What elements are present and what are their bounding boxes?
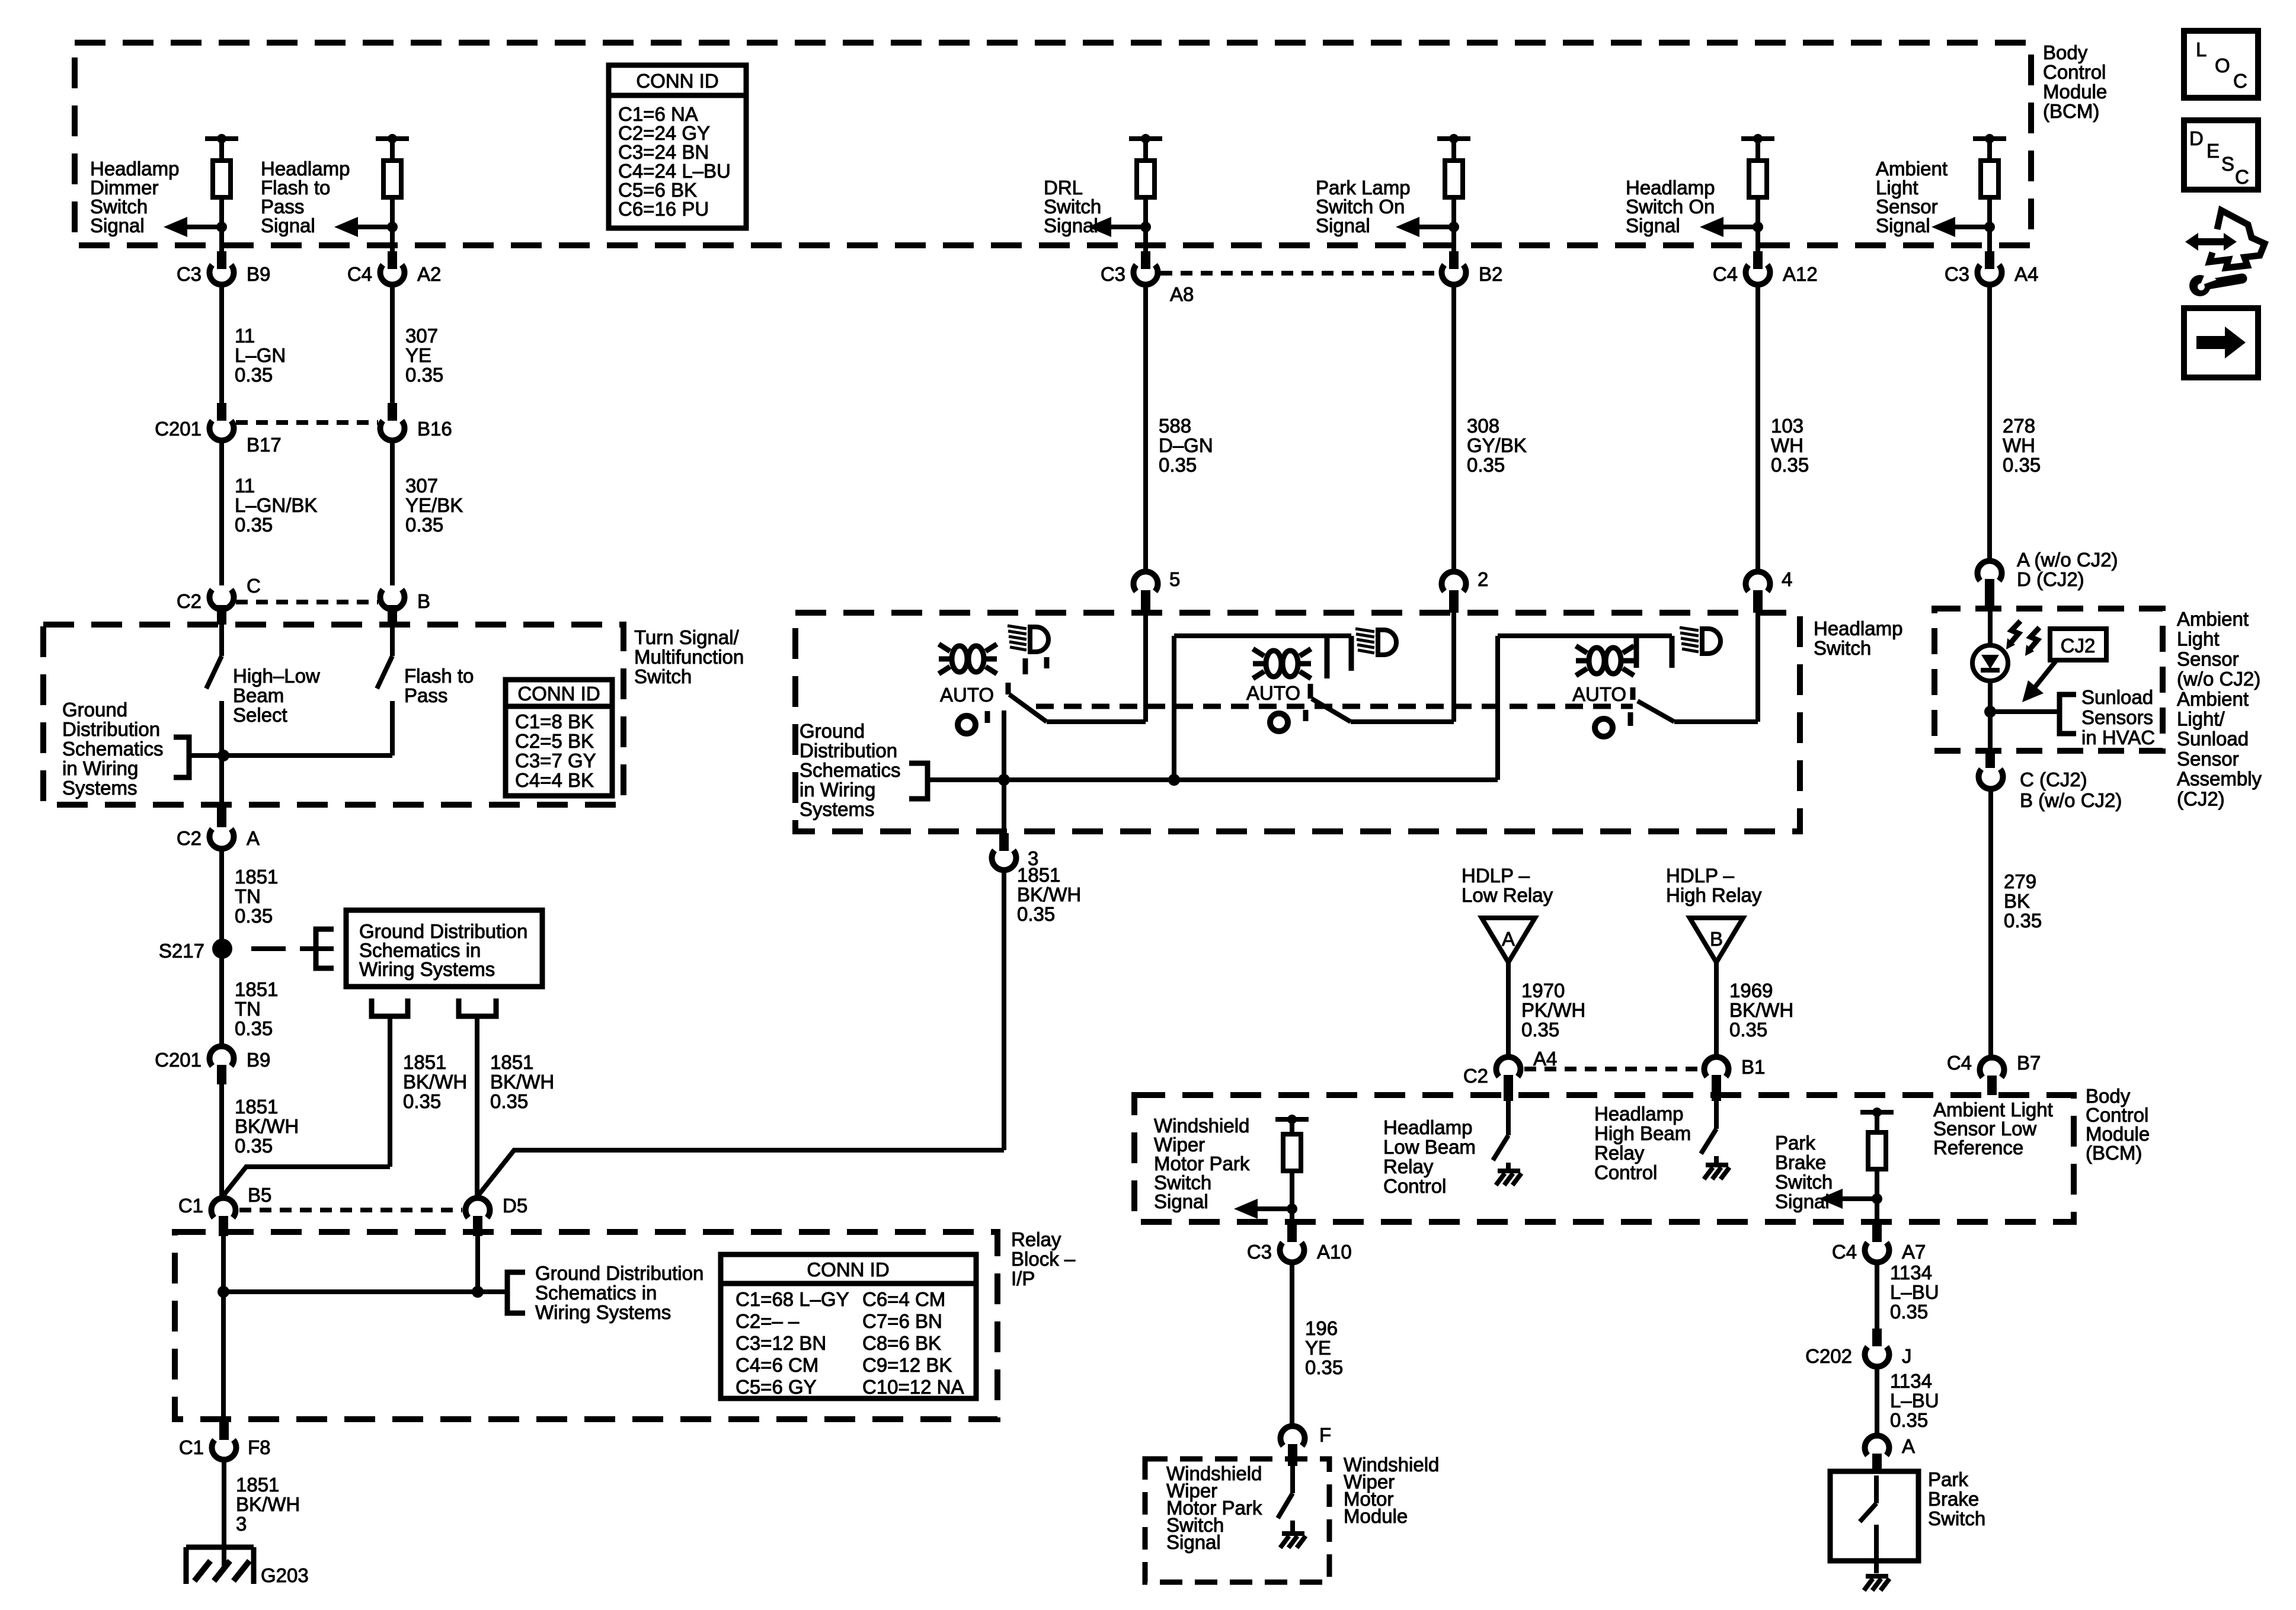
ground (high relay control) bbox=[1714, 1156, 1719, 1165]
svg-text:B5: B5 bbox=[248, 1184, 271, 1206]
svg-text:WH: WH bbox=[1771, 434, 1803, 456]
svg-text:Sensors: Sensors bbox=[2081, 706, 2153, 728]
connector legs of ground distribution box bbox=[372, 998, 408, 1016]
resistor (BCM internal) at x=2966 bbox=[1755, 139, 1760, 161]
wire 11 L-GN/BK 0.35 bbox=[219, 440, 224, 585]
resistor (BCM internal) at x=2453 bbox=[1451, 139, 1456, 161]
svg-text:Relay: Relay bbox=[1011, 1228, 1061, 1250]
svg-text:Switch: Switch bbox=[1775, 1171, 1833, 1193]
connector C2 pin A bbox=[217, 807, 226, 827]
svg-text:0.35: 0.35 bbox=[1890, 1409, 1928, 1431]
resistor (BCM internal) at x=374 bbox=[219, 139, 224, 161]
svg-text:TN: TN bbox=[235, 885, 261, 907]
svg-text:Light/: Light/ bbox=[2177, 708, 2225, 730]
svg-text:B2: B2 bbox=[1479, 263, 1502, 285]
connector C2 pin C bbox=[209, 590, 234, 609]
svg-text:AUTO: AUTO bbox=[1246, 682, 1300, 704]
svg-text:2: 2 bbox=[1478, 568, 1488, 590]
svg-text:BK/WH: BK/WH bbox=[236, 1493, 300, 1515]
svg-text:YE: YE bbox=[405, 344, 431, 366]
connector wiper module pin F bbox=[1281, 1426, 1305, 1446]
bracket: ground distribution reference (MFS) bbox=[174, 737, 189, 777]
svg-text:Ground Distribution: Ground Distribution bbox=[535, 1262, 703, 1284]
svg-text:C4: C4 bbox=[1713, 263, 1738, 285]
svg-text:L–BU: L–BU bbox=[1890, 1281, 1939, 1303]
wire 1134 L-BU 0.35 (lower) bbox=[1875, 1366, 1879, 1434]
svg-text:A4: A4 bbox=[1533, 1048, 1557, 1070]
wire 1851 TN 0.35 (lower) bbox=[219, 956, 224, 1045]
svg-text:Select: Select bbox=[233, 704, 287, 726]
svg-text:BK/WH: BK/WH bbox=[235, 1115, 299, 1137]
svg-text:Signal: Signal bbox=[1876, 215, 1930, 236]
svg-text:308: 308 bbox=[1467, 415, 1499, 437]
svg-text:Headlamp: Headlamp bbox=[1814, 617, 1902, 639]
svg-text:C202: C202 bbox=[1805, 1345, 1852, 1367]
svg-text:C3: C3 bbox=[1247, 1241, 1272, 1263]
icon: harness arrows and wrench bbox=[2185, 210, 2265, 296]
connector park brake switch pin A bbox=[1865, 1436, 1889, 1455]
wire: BCM internal supply rail tick for circuit at x=2453 bbox=[1437, 136, 1470, 141]
junction bbox=[998, 774, 1010, 786]
svg-text:C3: C3 bbox=[177, 263, 202, 285]
jumper: C2 harness dashed link bbox=[236, 600, 378, 604]
svg-text:A2: A2 bbox=[417, 263, 441, 285]
jumper: S217 reference dashes bbox=[251, 946, 334, 951]
connector C201 pin B16 bbox=[388, 403, 397, 421]
svg-text:1970: 1970 bbox=[1521, 980, 1565, 1001]
svg-text:F: F bbox=[1319, 1424, 1331, 1446]
svg-text:Sensor: Sensor bbox=[2177, 648, 2239, 670]
svg-text:C6=16 PU: C6=16 PU bbox=[618, 198, 709, 220]
svg-text:C2: C2 bbox=[177, 590, 202, 612]
svg-text:WH: WH bbox=[2003, 434, 2035, 456]
svg-text:Ambient: Ambient bbox=[2177, 688, 2249, 710]
svg-text:C3: C3 bbox=[1101, 263, 1125, 285]
wire 1851 BK/WH 3 bbox=[222, 1459, 226, 1569]
svg-text:Switch: Switch bbox=[1814, 637, 1871, 659]
svg-text:C1=8 BK: C1=8 BK bbox=[515, 710, 594, 732]
resistor (BCM internal) at x=1933 bbox=[1143, 139, 1148, 161]
signal arrow for circuit at x=1933 bbox=[1140, 222, 1151, 232]
svg-text:Signal: Signal bbox=[1775, 1190, 1830, 1212]
switch: Park Lamp (AUTO) bbox=[1174, 629, 1454, 780]
bracket: ground distribution reference (relay block) bbox=[507, 1272, 525, 1313]
svg-text:YE: YE bbox=[1305, 1337, 1331, 1359]
svg-text:(w/o CJ2): (w/o CJ2) bbox=[2177, 668, 2260, 690]
svg-text:C7=6 BN: C7=6 BN bbox=[862, 1310, 942, 1332]
light arrows bbox=[2009, 621, 2020, 645]
bracket: ground distribution reference (S217) bbox=[316, 929, 334, 968]
svg-text:0.35: 0.35 bbox=[235, 1017, 273, 1039]
resistor (BCM internal) at x=662 bbox=[390, 139, 395, 161]
connector C1 pin F8 bbox=[219, 1422, 229, 1440]
svg-text:1851: 1851 bbox=[235, 866, 278, 888]
svg-text:PK/WH: PK/WH bbox=[1521, 999, 1585, 1021]
svg-text:0.35: 0.35 bbox=[405, 364, 443, 386]
wire: BCM internal supply rail tick for circuit at x=374 bbox=[205, 136, 238, 141]
signal arrow for circuit at x=2453 bbox=[1448, 222, 1459, 232]
junction bbox=[1168, 774, 1180, 786]
svg-text:TN: TN bbox=[235, 998, 261, 1020]
svg-text:C1: C1 bbox=[179, 1436, 204, 1458]
connector C3 pin B9 bbox=[217, 251, 226, 269]
module box: Windshield Wiper Motor Module bbox=[1145, 1459, 1329, 1582]
svg-text:Light: Light bbox=[2177, 628, 2220, 650]
svg-text:L–GN/BK: L–GN/BK bbox=[235, 494, 317, 516]
wire: MFS ground link bbox=[189, 753, 392, 758]
svg-text:C8=6 BK: C8=6 BK bbox=[862, 1332, 941, 1354]
svg-text:C9=12 BK: C9=12 BK bbox=[862, 1354, 952, 1376]
switch: Headlamp On (AUTO) bbox=[1498, 628, 1758, 780]
svg-text:A: A bbox=[1902, 1435, 1915, 1457]
svg-text:C2: C2 bbox=[1463, 1065, 1488, 1087]
svg-text:Signal: Signal bbox=[1044, 215, 1098, 236]
svg-text:3: 3 bbox=[236, 1513, 247, 1535]
svg-text:307: 307 bbox=[405, 475, 438, 497]
svg-text:Brake: Brake bbox=[1775, 1151, 1826, 1173]
svg-text:Sensor: Sensor bbox=[2177, 748, 2239, 770]
svg-text:0.35: 0.35 bbox=[1467, 454, 1505, 476]
svg-text:Signal: Signal bbox=[90, 215, 145, 236]
svg-text:0.35: 0.35 bbox=[235, 905, 273, 927]
svg-text:in Wiring: in Wiring bbox=[800, 779, 875, 801]
svg-text:1851: 1851 bbox=[490, 1051, 533, 1073]
svg-text:4: 4 bbox=[1782, 568, 1792, 590]
svg-text:Headlamp: Headlamp bbox=[1383, 1116, 1472, 1138]
svg-text:Pass: Pass bbox=[404, 684, 447, 706]
switch: DRL (AUTO) bbox=[939, 626, 1146, 734]
svg-text:L–BU: L–BU bbox=[1890, 1390, 1939, 1411]
svg-text:0.35: 0.35 bbox=[405, 514, 443, 536]
signal arrow for circuit at x=3357 bbox=[1984, 222, 1995, 232]
svg-text:(BCM): (BCM) bbox=[2086, 1142, 2142, 1164]
svg-text:Ambient: Ambient bbox=[2177, 608, 2249, 630]
junction bbox=[1984, 706, 1996, 718]
svg-text:HDLP –: HDLP – bbox=[1666, 865, 1735, 886]
svg-text:CONN ID: CONN ID bbox=[807, 1259, 889, 1281]
wire: ambient light sensor signal (upper) bbox=[1987, 557, 1992, 562]
svg-text:Wiring Systems: Wiring Systems bbox=[359, 958, 495, 980]
junction bbox=[472, 1286, 484, 1298]
svg-text:1851: 1851 bbox=[235, 1096, 278, 1118]
svg-text:0.35: 0.35 bbox=[235, 364, 273, 386]
svg-text:Switch: Switch bbox=[1928, 1507, 1985, 1529]
ground (wiper module) bbox=[1290, 1521, 1295, 1534]
svg-text:C: C bbox=[2235, 166, 2249, 188]
connector C4 pin A7 bbox=[1872, 1224, 1882, 1242]
svg-text:0.35: 0.35 bbox=[1305, 1356, 1343, 1378]
ground (park brake switch) bbox=[1866, 1574, 1888, 1579]
svg-text:Signal: Signal bbox=[261, 215, 315, 236]
svg-text:Flash to: Flash to bbox=[404, 665, 474, 687]
svg-text:0.35: 0.35 bbox=[1159, 454, 1197, 476]
svg-text:307: 307 bbox=[405, 325, 438, 347]
module box: Body Control Module (BCM) top bbox=[75, 43, 2031, 245]
svg-text:B: B bbox=[1710, 928, 1723, 950]
svg-text:Switch: Switch bbox=[634, 665, 692, 687]
svg-text:S: S bbox=[2221, 153, 2234, 175]
signal arrow for circuit at x=374 bbox=[216, 222, 227, 232]
wire 196 YE 0.35 bbox=[1290, 1262, 1294, 1425]
resistor (BCM internal) at x=3357 bbox=[1987, 139, 1992, 161]
ground (low relay control) bbox=[1506, 1163, 1511, 1171]
callout: CJ2 bbox=[2022, 629, 2106, 702]
wire 1851 BK/WH 0.35 (right leg) bbox=[475, 1016, 479, 1196]
wire 308 GY/BK 0.35 bbox=[1451, 284, 1456, 570]
connector C4 pin B7 bbox=[1980, 1058, 2004, 1077]
svg-text:Park: Park bbox=[1928, 1468, 1968, 1490]
svg-text:1134: 1134 bbox=[1890, 1370, 1932, 1392]
wire 1970 PK/WH 0.35 bbox=[1506, 962, 1511, 1055]
svg-text:Control: Control bbox=[1594, 1161, 1657, 1183]
svg-text:Ground: Ground bbox=[800, 720, 865, 742]
svg-text:E: E bbox=[2207, 140, 2220, 162]
svg-text:Signal: Signal bbox=[1154, 1190, 1208, 1212]
splice S217 bbox=[212, 939, 232, 959]
svg-text:C1: C1 bbox=[178, 1195, 203, 1217]
svg-text:A4: A4 bbox=[2014, 263, 2038, 285]
wire 1969 BK/WH 0.35 bbox=[1714, 962, 1719, 1055]
module box: Relay Block - I/P bbox=[175, 1232, 997, 1419]
ground G203 bbox=[186, 1547, 254, 1584]
svg-text:in HVAC: in HVAC bbox=[2081, 726, 2155, 748]
svg-text:Schematics: Schematics bbox=[800, 759, 901, 781]
svg-text:C4: C4 bbox=[1947, 1052, 1972, 1074]
svg-text:Module: Module bbox=[2043, 81, 2107, 103]
svg-text:1851: 1851 bbox=[403, 1051, 446, 1073]
connector pin A (w/o CJ2) / D (CJ2) bbox=[1978, 561, 2002, 581]
svg-text:S217: S217 bbox=[159, 940, 204, 962]
svg-text:High–Low: High–Low bbox=[233, 665, 320, 687]
module box: Ambient Light Sensor bbox=[1934, 609, 2163, 751]
svg-text:A (w/o CJ2): A (w/o CJ2) bbox=[2017, 549, 2118, 571]
wire 103 WH 0.35 bbox=[1755, 284, 1760, 570]
svg-text:BK/WH: BK/WH bbox=[490, 1071, 554, 1093]
connector pin B1 (BCM) bbox=[1704, 1057, 1728, 1077]
svg-text:HDLP –: HDLP – bbox=[1462, 865, 1530, 886]
wire: BCM internal supply rail tick for circuit at x=662 bbox=[376, 136, 409, 141]
svg-text:in Wiring: in Wiring bbox=[62, 757, 138, 779]
svg-text:Low Beam: Low Beam bbox=[1383, 1136, 1476, 1158]
junction bbox=[218, 1286, 229, 1298]
wire: sunload sensor link bbox=[1990, 709, 2060, 714]
svg-text:C4: C4 bbox=[347, 263, 372, 285]
svg-text:0.35: 0.35 bbox=[2004, 910, 2042, 932]
svg-text:(BCM): (BCM) bbox=[2043, 100, 2099, 122]
connector C4 pin A2 bbox=[388, 251, 397, 269]
svg-text:Signal: Signal bbox=[1316, 215, 1370, 236]
connector pin C (CJ2) / B (w/o CJ2) bbox=[1985, 751, 1995, 768]
wire 279 BK 0.35 bbox=[1988, 789, 1993, 1056]
svg-text:D: D bbox=[2189, 127, 2204, 149]
svg-text:0.35: 0.35 bbox=[2003, 454, 2041, 476]
svg-text:278: 278 bbox=[2003, 415, 2035, 437]
svg-text:Relay: Relay bbox=[1383, 1156, 1434, 1177]
svg-text:A8: A8 bbox=[1170, 283, 1194, 305]
svg-text:11: 11 bbox=[235, 325, 255, 347]
svg-text:Brake: Brake bbox=[1928, 1488, 1979, 1510]
svg-text:1969: 1969 bbox=[1729, 980, 1773, 1001]
jumper: C201 harness dashed link bbox=[236, 420, 378, 425]
wire 1851 BK/WH 0.35 (left leg) bbox=[388, 1016, 392, 1167]
svg-text:0.35: 0.35 bbox=[1521, 1019, 1559, 1041]
svg-text:CONN ID: CONN ID bbox=[636, 70, 718, 92]
svg-text:0.35: 0.35 bbox=[1771, 454, 1809, 476]
svg-text:C: C bbox=[2233, 70, 2247, 92]
bracket: sunload sensors reference bbox=[2060, 694, 2076, 734]
svg-text:I/P: I/P bbox=[1011, 1267, 1035, 1289]
svg-text:CONN ID: CONN ID bbox=[517, 683, 600, 705]
svg-text:D–GN: D–GN bbox=[1159, 434, 1213, 456]
svg-text:L–GN: L–GN bbox=[235, 344, 286, 366]
note box: Ground Distribution Schematics in Wiring Systems bbox=[346, 910, 542, 987]
svg-text:O: O bbox=[2215, 55, 2230, 76]
svg-text:L: L bbox=[2196, 39, 2207, 60]
svg-text:D5: D5 bbox=[503, 1195, 527, 1217]
svg-text:Distribution: Distribution bbox=[62, 718, 160, 740]
svg-text:BK/WH: BK/WH bbox=[403, 1071, 467, 1093]
connector C3 pin A4 bbox=[1985, 251, 1994, 269]
svg-text:Ground: Ground bbox=[62, 699, 127, 721]
svg-text:D (CJ2): D (CJ2) bbox=[2017, 568, 2084, 590]
svg-text:B17: B17 bbox=[247, 434, 282, 456]
component box: Park Brake Switch bbox=[1830, 1471, 1918, 1561]
connector C3 pin A8 bbox=[1141, 251, 1150, 269]
jumper: C3-B2 dashed link bbox=[1160, 271, 1439, 276]
svg-text:C1=68 L–GY: C1=68 L–GY bbox=[736, 1288, 849, 1310]
svg-text:1851: 1851 bbox=[236, 1474, 279, 1496]
svg-text:Distribution: Distribution bbox=[800, 740, 897, 761]
icon: DESC box bbox=[2184, 120, 2258, 190]
circuit: Windshield Wiper Motor Park Switch Signal bbox=[1154, 1115, 1309, 1224]
svg-text:103: 103 bbox=[1771, 415, 1803, 437]
svg-text:B7: B7 bbox=[2017, 1052, 2041, 1074]
svg-text:Body: Body bbox=[2043, 41, 2088, 63]
svg-text:F8: F8 bbox=[248, 1436, 271, 1458]
svg-text:A: A bbox=[247, 827, 260, 849]
svg-text:Module: Module bbox=[1344, 1505, 1408, 1527]
relay HDLP - Low Relay (A) bbox=[1462, 865, 1553, 962]
svg-text:AUTO: AUTO bbox=[1572, 683, 1626, 705]
wire: DRL switch common bbox=[1002, 710, 1006, 835]
svg-text:CJ2: CJ2 bbox=[2061, 635, 2096, 657]
svg-text:A7: A7 bbox=[1902, 1241, 1926, 1263]
svg-text:B1: B1 bbox=[1741, 1056, 1765, 1078]
wire 1134 L-BU 0.35 (upper) bbox=[1875, 1262, 1879, 1329]
svg-text:0.35: 0.35 bbox=[403, 1090, 441, 1112]
wire: BCM internal supply rail tick for circuit at x=1933 bbox=[1129, 136, 1162, 141]
wire 307 YE/BK 0.35 bbox=[390, 440, 395, 585]
wire 1851 BK/WH 0.35 (main) bbox=[219, 1084, 224, 1197]
svg-text:Systems: Systems bbox=[62, 777, 137, 799]
svg-text:GY/BK: GY/BK bbox=[1467, 434, 1527, 456]
table: CONN ID (BCM) bbox=[609, 65, 746, 228]
wire 307 YE 0.35 bbox=[390, 284, 395, 403]
svg-text:Control: Control bbox=[1383, 1175, 1446, 1197]
svg-text:B9: B9 bbox=[247, 1049, 270, 1071]
svg-text:BK/WH: BK/WH bbox=[1017, 884, 1081, 905]
svg-text:A10: A10 bbox=[1317, 1241, 1352, 1263]
switch: Headlamp High Beam Relay Control bbox=[1714, 1101, 1719, 1129]
svg-text:1851: 1851 bbox=[1017, 864, 1060, 886]
connector C201 pin B17 bbox=[217, 403, 226, 421]
wire: headlamp switch common bus bbox=[928, 777, 1498, 782]
svg-text:Assembly: Assembly bbox=[2177, 768, 2262, 790]
jumper: C1-D5 dashed link bbox=[239, 1208, 462, 1212]
circuit: Park Brake Switch Signal bbox=[1775, 1108, 1894, 1224]
wire 11 L-GN 0.35 bbox=[219, 284, 224, 403]
table: CONN ID (MFS) bbox=[506, 680, 612, 796]
module box: Headlamp Switch bbox=[795, 613, 1800, 831]
svg-text:Multifunction: Multifunction bbox=[634, 646, 744, 668]
jumper: C2-B1 dashed link bbox=[1524, 1067, 1700, 1071]
connector headlamp switch pin 2 bbox=[1442, 572, 1466, 591]
connector C202 pin J bbox=[1872, 1329, 1882, 1346]
svg-text:C4: C4 bbox=[1832, 1241, 1857, 1263]
svg-text:Beam: Beam bbox=[233, 684, 284, 706]
svg-text:Signal: Signal bbox=[1166, 1531, 1221, 1553]
svg-text:C5=6 GY: C5=6 GY bbox=[736, 1376, 817, 1398]
svg-text:C (CJ2): C (CJ2) bbox=[2020, 769, 2087, 790]
relay HDLP - High Relay (B) bbox=[1666, 865, 1762, 962]
photodiode (ambient light sensor) bbox=[1972, 610, 2039, 751]
svg-text:Block –: Block – bbox=[1011, 1248, 1076, 1270]
svg-text:Wiring Systems: Wiring Systems bbox=[535, 1301, 671, 1323]
signal arrow for circuit at x=2966 bbox=[1753, 222, 1763, 232]
svg-text:Relay: Relay bbox=[1594, 1142, 1645, 1164]
svg-text:Schematics in: Schematics in bbox=[535, 1282, 657, 1304]
svg-text:C2: C2 bbox=[177, 827, 202, 849]
svg-text:C3=12 BN: C3=12 BN bbox=[736, 1332, 826, 1354]
svg-text:C3: C3 bbox=[1945, 263, 1969, 285]
wire: relay block internal ground bus bbox=[221, 1236, 226, 1422]
svg-text:B: B bbox=[417, 590, 430, 612]
svg-text:Park: Park bbox=[1775, 1132, 1815, 1154]
connector headlamp switch pin 4 bbox=[1746, 572, 1770, 591]
icon: LOC box bbox=[2184, 31, 2258, 98]
svg-text:C6=4 CM: C6=4 CM bbox=[862, 1288, 945, 1310]
connector C4 pin A12 bbox=[1753, 251, 1763, 269]
svg-text:196: 196 bbox=[1305, 1317, 1338, 1339]
svg-text:C4=4 BK: C4=4 BK bbox=[515, 769, 594, 791]
svg-text:B9: B9 bbox=[247, 263, 270, 285]
svg-text:B (w/o CJ2): B (w/o CJ2) bbox=[2020, 789, 2122, 811]
wire: BCM internal supply rail tick for circuit at x=3357 bbox=[1973, 136, 2006, 141]
svg-text:C10=12 NA: C10=12 NA bbox=[862, 1376, 964, 1398]
svg-text:5: 5 bbox=[1169, 568, 1180, 590]
svg-text:C3=7 GY: C3=7 GY bbox=[515, 750, 596, 772]
svg-text:B16: B16 bbox=[417, 418, 452, 440]
svg-text:C4=6 CM: C4=6 CM bbox=[736, 1354, 818, 1376]
svg-text:BK: BK bbox=[2004, 890, 2030, 912]
wire 588 D-GN 0.35 bbox=[1143, 284, 1148, 570]
svg-text:0.35: 0.35 bbox=[1729, 1019, 1767, 1041]
svg-text:0.35: 0.35 bbox=[235, 1135, 273, 1157]
module box: Body Control Module (BCM) bottom bbox=[1134, 1095, 2074, 1222]
svg-text:Sunload: Sunload bbox=[2177, 728, 2249, 750]
bracket: ground distribution reference (headlamp switch) bbox=[909, 763, 928, 799]
switch: Flash to Pass bbox=[390, 625, 395, 656]
svg-text:High Relay: High Relay bbox=[1666, 884, 1762, 906]
svg-text:279: 279 bbox=[2004, 870, 2036, 892]
svg-text:Turn Signal/: Turn Signal/ bbox=[634, 626, 740, 648]
svg-text:G203: G203 bbox=[261, 1564, 309, 1586]
svg-text:C: C bbox=[247, 575, 261, 597]
svg-text:High Beam: High Beam bbox=[1594, 1122, 1691, 1144]
svg-text:1134: 1134 bbox=[1890, 1262, 1932, 1283]
signal arrow for circuit at x=662 bbox=[387, 222, 398, 232]
svg-text:Low Relay: Low Relay bbox=[1462, 884, 1553, 906]
